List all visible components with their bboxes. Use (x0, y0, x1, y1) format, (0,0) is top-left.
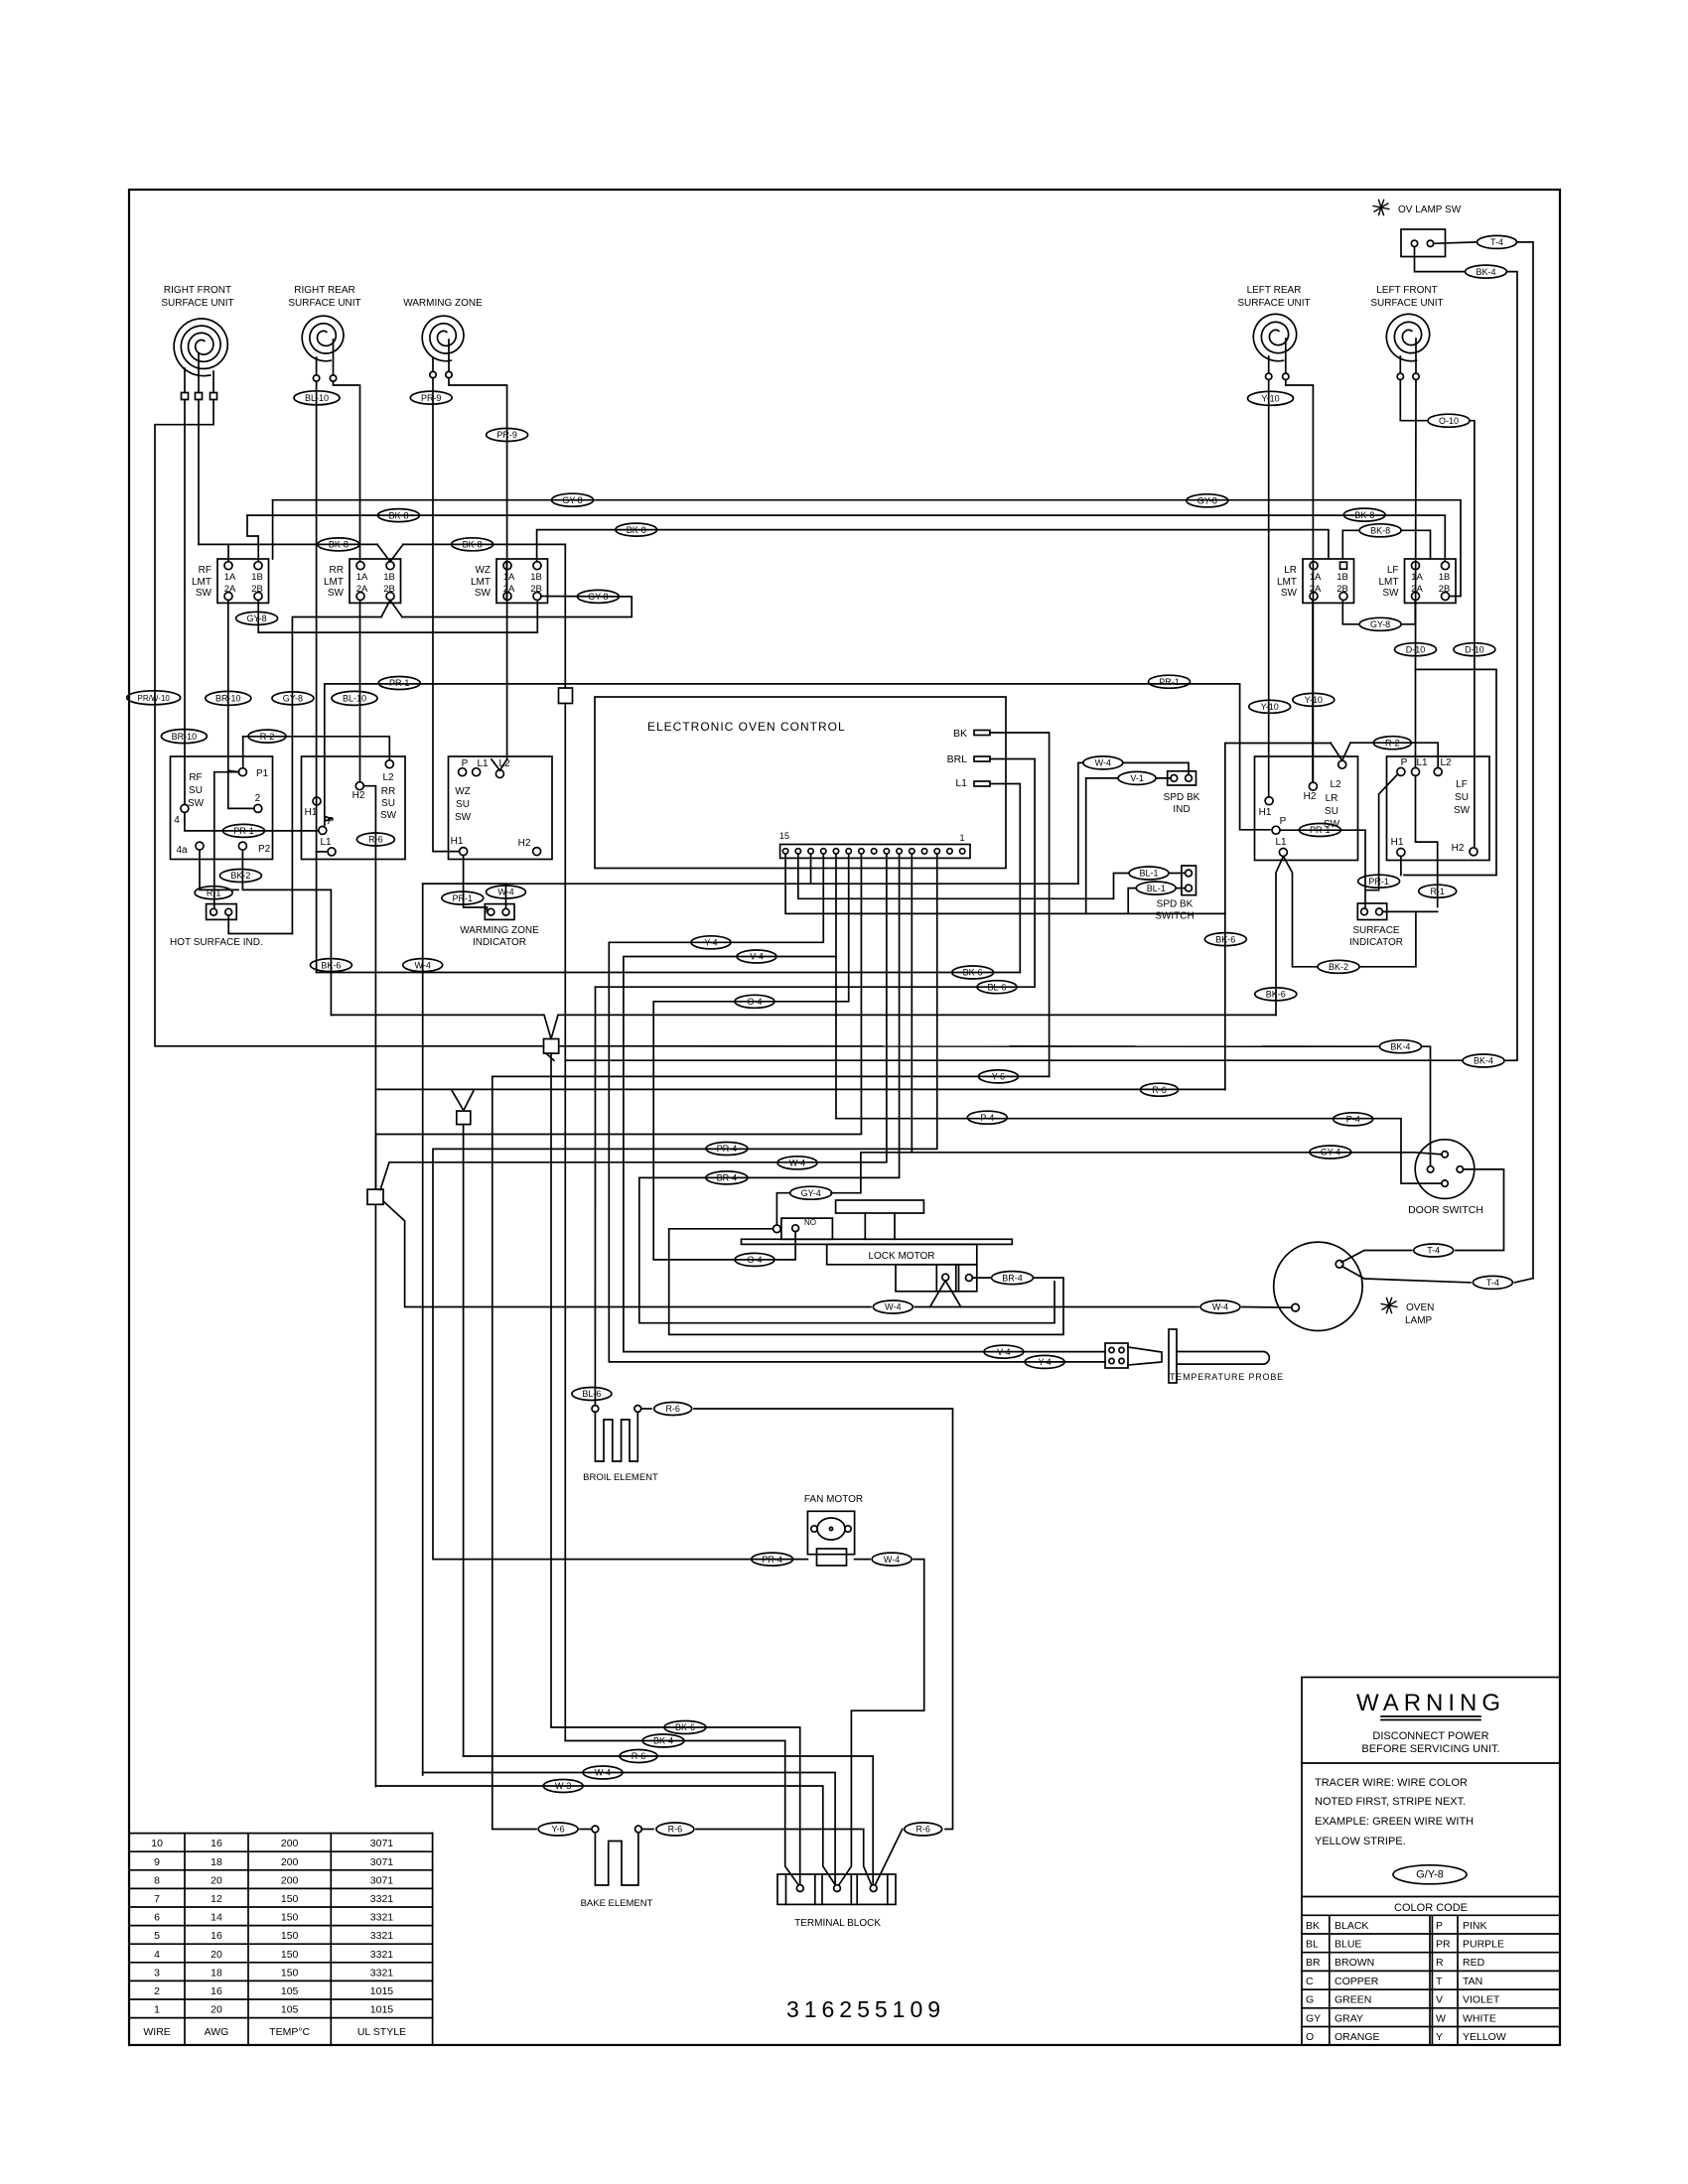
svg-text:LR: LR (1326, 793, 1338, 804)
terminal LF H2 (1452, 843, 1477, 856)
svg-text:LMT: LMT (192, 577, 211, 588)
svg-text:LMT: LMT (471, 577, 491, 588)
wire BL-1b (1128, 888, 1185, 914)
temperature probe bar (1169, 1329, 1177, 1383)
wire LR 2A down (1312, 601, 1314, 783)
wire 2 to 2A line (228, 770, 254, 808)
wire P flag RR (325, 684, 332, 825)
oval R-1 hsi (195, 887, 232, 899)
wire funnel WZ L2 (492, 759, 507, 770)
wire 1068 to ovlamp riser (1504, 1059, 1517, 1061)
terminal LR P (1272, 816, 1287, 834)
svg-text:316255109: 316255109 (786, 1996, 945, 2022)
oval R-6 bake (656, 1823, 694, 1836)
labels RR SU SW (380, 772, 397, 821)
broil element (592, 1406, 641, 1461)
svg-text:14: 14 (211, 1912, 222, 1924)
svg-text:Y-4: Y-4 (1039, 1357, 1052, 1367)
svg-text:SW: SW (1454, 805, 1471, 816)
wire RR coil left down BL-10 (316, 381, 318, 852)
svg-text:200: 200 (281, 1856, 299, 1868)
oval BL-1 a (1129, 867, 1169, 880)
svg-text:BR-4: BR-4 (1002, 1273, 1023, 1283)
lock switch pins (774, 1225, 799, 1233)
svg-text:BK: BK (1306, 1920, 1320, 1932)
oval W-4 lock1 (873, 1300, 913, 1313)
svg-text:SU: SU (456, 799, 470, 810)
oven lamp circle (1274, 1242, 1362, 1330)
svg-text:BR-10: BR-10 (172, 732, 198, 742)
wire T-4b to right riser (1514, 1279, 1533, 1283)
wire pin10 O-4 (653, 854, 849, 1260)
svg-text:PURPLE: PURPLE (1463, 1939, 1504, 1951)
wire RR2B left branch down (292, 617, 381, 934)
svg-text:H2: H2 (1452, 843, 1465, 854)
svg-text:BK-8: BK-8 (388, 510, 408, 520)
limit switch RR LMT SW (324, 559, 401, 603)
svg-text:Y-10: Y-10 (1261, 702, 1279, 712)
svg-text:INDICATOR: INDICATOR (1349, 937, 1403, 948)
svg-text:LMT: LMT (1277, 577, 1297, 588)
svg-text:15: 15 (779, 831, 789, 841)
switch RR SU SW box (302, 756, 406, 860)
oval BK-8 on LR1B (1359, 524, 1401, 537)
wire WZ 2B to GY-8 right (402, 597, 632, 617)
svg-text:Y-4: Y-4 (704, 938, 717, 948)
door switch pins (1427, 1152, 1463, 1187)
oval D-10 b (1454, 643, 1495, 656)
oval P-4 a (967, 1111, 1007, 1124)
lock motor lower box (896, 1265, 977, 1292)
terminal P1 (238, 768, 268, 779)
svg-text:PR-1: PR-1 (233, 826, 254, 836)
wire LF L1 down R-1 (1416, 775, 1438, 906)
svg-text:LOCK MOTOR: LOCK MOTOR (868, 1251, 934, 1262)
svg-text:G: G (1306, 1994, 1314, 2006)
svg-text:BK-8: BK-8 (1370, 526, 1390, 536)
wire BK stub (990, 733, 1050, 1076)
svg-text:BK-6: BK-6 (963, 968, 983, 978)
wire WZ coil left down (433, 378, 460, 852)
svg-text:BK-8: BK-8 (463, 540, 483, 550)
wire lock NC left (669, 1229, 1063, 1335)
svg-text:O-4: O-4 (747, 997, 762, 1007)
svg-text:L1: L1 (955, 777, 967, 789)
svg-text:R-2: R-2 (260, 732, 275, 742)
asterisk OV LAMP SW (1373, 200, 1389, 214)
wire bus BK-6 L1 (317, 972, 1021, 974)
svg-text:SWITCH: SWITCH (1155, 911, 1194, 922)
svg-text:L2: L2 (1440, 757, 1452, 768)
oval BK-4 ovlamp (1463, 1054, 1504, 1067)
svg-text:LR: LR (1284, 565, 1297, 576)
svg-text:W-4: W-4 (884, 1555, 900, 1565)
svg-text:V-4: V-4 (750, 952, 764, 962)
svg-text:18: 18 (211, 1856, 222, 1868)
svg-text:5: 5 (154, 1930, 160, 1942)
oval BR-10 on RF lead (161, 730, 207, 744)
svg-text:3321: 3321 (370, 1893, 394, 1905)
indicator SPD BK IND (1168, 771, 1196, 785)
oval Y-4 a (691, 936, 731, 949)
label WARMING ZONE (403, 298, 483, 309)
svg-text:PR-4: PR-4 (762, 1555, 782, 1565)
svg-text:PR-1: PR-1 (1159, 677, 1180, 687)
svg-text:WARMING ZONE: WARMING ZONE (460, 925, 539, 936)
terminal circles RR coil (313, 375, 336, 381)
wire bus R-2 right (1350, 743, 1438, 767)
wire pin3 PR-4 (433, 854, 937, 1560)
oval BL-10 on RR (294, 391, 340, 405)
svg-text:12: 12 (211, 1893, 222, 1905)
terminal RR H2 (352, 782, 365, 801)
wire squareC W4 out (383, 1201, 871, 1307)
svg-text:SW: SW (475, 588, 492, 599)
terminal squares RF coil (182, 393, 217, 400)
svg-text:L2: L2 (498, 758, 510, 769)
terminal RR L1 (320, 837, 336, 856)
wire OV LAMP SW to T-4 (1434, 242, 1476, 243)
labels WZ P L1 L2 (462, 758, 510, 769)
wire BL-6 down to broil (594, 987, 596, 1405)
oval BK-8 long1 (378, 509, 420, 522)
svg-text:O-10: O-10 (1439, 416, 1459, 426)
label LEFT REAR SURFACE UNIT (1237, 285, 1310, 309)
svg-text:1B: 1B (383, 572, 395, 583)
oval PR-1 rfsu (223, 824, 265, 837)
wire door right to T-4 (1456, 1169, 1504, 1251)
svg-text:BR: BR (1306, 1957, 1321, 1969)
svg-text:VIOLET: VIOLET (1463, 1994, 1500, 2006)
limit switch LF LMT SW (1379, 559, 1457, 603)
svg-text:P: P (1401, 757, 1408, 768)
wire bus W-3 bottom (375, 1786, 835, 1885)
wire bus GY-8 top (273, 500, 1461, 597)
wire bus BK-8 b (403, 543, 565, 545)
svg-text:T-4: T-4 (1486, 1278, 1499, 1288)
wire bus 1068 BK-4 (565, 1059, 1463, 1061)
wire bus PR-1 (325, 684, 1270, 830)
svg-text:BL-10: BL-10 (305, 393, 329, 403)
wire pin7 W-4 sq3 (380, 854, 887, 1190)
svg-text:ELECTRONIC OVEN CONTROL: ELECTRONIC OVEN CONTROL (647, 720, 846, 734)
label OV LAMP SW (1398, 205, 1462, 215)
wire LR 1B riser (1342, 530, 1359, 559)
wire funnel LR L2 (1331, 743, 1350, 760)
wire lock terminal W4 legs (930, 1281, 961, 1307)
svg-text:BL-1: BL-1 (1139, 869, 1158, 879)
svg-text:W-4: W-4 (885, 1302, 901, 1312)
oval W-4 lamp (1200, 1300, 1240, 1313)
svg-text:3071: 3071 (370, 1874, 394, 1886)
svg-text:L1: L1 (1416, 757, 1428, 768)
wire funnel squareB (451, 1089, 474, 1109)
wire RR H2 to R-6 line (363, 786, 375, 1189)
oval T-4 lamp (1473, 1276, 1512, 1289)
svg-text:GY-4: GY-4 (801, 1188, 821, 1198)
wire RF2A to P1 (228, 601, 239, 772)
oval PR-1 lfp (1358, 875, 1400, 887)
label BROIL ELEMENT (583, 1472, 658, 1483)
oval BK-4 b1 (642, 1734, 684, 1747)
label ELECTRONIC OVEN CONTROL (647, 720, 846, 734)
lock motor terminals (942, 1274, 973, 1281)
svg-text:HOT SURFACE IND.: HOT SURFACE IND. (170, 937, 263, 948)
wire WZ 1B up to BK-8 bus (537, 530, 1329, 562)
svg-text:PR-1: PR-1 (453, 893, 474, 903)
svg-text:L1: L1 (477, 758, 489, 769)
oval G/Y-8 (1393, 1865, 1467, 1884)
oval BK-4 top (1466, 265, 1507, 278)
wire bake left Y-6 (580, 1829, 592, 1831)
oval T-4 door (1414, 1244, 1454, 1257)
junction square B (457, 1111, 471, 1125)
svg-text:GY-8: GY-8 (283, 694, 303, 704)
svg-text:PR/W-10: PR/W-10 (138, 694, 171, 703)
oval GY-8 top2 (1187, 494, 1228, 507)
terminal P2 (238, 842, 270, 855)
label SURFACE INDICATOR (1349, 925, 1403, 948)
svg-text:2A: 2A (1411, 584, 1423, 595)
svg-text:20: 20 (211, 2004, 222, 2016)
svg-text:BK-4: BK-4 (1474, 1056, 1493, 1066)
wire LF H1 stub (1400, 857, 1402, 876)
svg-text:16: 16 (211, 1838, 222, 1849)
svg-text:4: 4 (174, 815, 180, 826)
wire GY-4 lock (776, 1153, 861, 1225)
oval BL-1 b (1136, 882, 1176, 894)
svg-text:GRAY: GRAY (1335, 2012, 1363, 2024)
svg-text:BRL: BRL (947, 753, 968, 765)
terminal WZ H2 (518, 838, 541, 856)
svg-text:2A: 2A (356, 584, 368, 595)
svg-text:TEMPERATURE PROBE: TEMPERATURE PROBE (1170, 1372, 1284, 1382)
wire R-2 to P1 (242, 737, 244, 768)
svg-text:COPPER: COPPER (1335, 1976, 1379, 1987)
label LEFT FRONT SURFACE UNIT (1370, 285, 1443, 309)
oval BL-6 broil (572, 1388, 612, 1401)
wire bus R-6 mid (375, 1088, 1224, 1090)
wire bake right R-6 (641, 1830, 871, 1885)
svg-text:1: 1 (154, 2004, 160, 2016)
wire LR coil right jog (1286, 380, 1314, 783)
svg-text:1A: 1A (1310, 572, 1322, 583)
oval R-2 right (1373, 737, 1411, 750)
svg-text:AWG: AWG (205, 2026, 229, 2038)
svg-text:TEMP°C: TEMP°C (269, 2026, 310, 2038)
oval V-4 a (737, 950, 776, 963)
svg-text:GREEN: GREEN (1335, 1994, 1371, 2006)
wire GY-4 bus right (912, 1153, 1442, 1155)
svg-text:1A: 1A (1411, 572, 1423, 583)
svg-text:SW: SW (455, 812, 472, 823)
wire PR-1 wzi (486, 907, 488, 912)
svg-text:BEFORE SERVICING UNIT.: BEFORE SERVICING UNIT. (1361, 1743, 1499, 1755)
pin L1 (955, 777, 990, 789)
terminal RR L2 (385, 760, 393, 768)
oval GY-4 door (1310, 1146, 1351, 1159)
pin BRL (947, 753, 990, 765)
svg-text:2: 2 (154, 1985, 160, 1997)
svg-text:LF: LF (1456, 779, 1468, 790)
wire RR 2A down BL-10 (359, 601, 361, 782)
terminal circles LR coil (1266, 373, 1290, 379)
svg-text:7: 7 (154, 1893, 160, 1905)
oval BK-6 lr (1255, 988, 1297, 1001)
border frame (129, 190, 1560, 2045)
svg-text:WZ: WZ (455, 786, 471, 797)
svg-text:GY-8: GY-8 (588, 592, 608, 602)
svg-text:P: P (328, 816, 335, 827)
terminal 4 (174, 804, 189, 826)
oval BK-8 wz1b (616, 523, 657, 536)
color code entries (1306, 1920, 1506, 2043)
oval BK-4 door (1379, 1040, 1421, 1053)
svg-text:D-10: D-10 (1406, 644, 1426, 654)
svg-text:PR-9: PR-9 (421, 393, 442, 403)
switch SPD BK SWITCH (1182, 866, 1196, 895)
oval Y-4 probe (1025, 1355, 1064, 1368)
oval PR-4 bus (706, 1143, 748, 1156)
svg-text:150: 150 (281, 1930, 299, 1942)
svg-text:EXAMPLE: GREEN WIRE WITH: EXAMPLE: GREEN WIRE WITH (1315, 1816, 1474, 1828)
label BEFORE SERVICING UNIT (1361, 1743, 1499, 1755)
wire W4 to lamp pin (1242, 1306, 1292, 1309)
svg-text:P-4: P-4 (1346, 1115, 1360, 1125)
wire BK-8 LR to LF (1401, 530, 1431, 559)
svg-text:W-4: W-4 (1212, 1302, 1228, 1312)
svg-text:1015: 1015 (370, 1985, 394, 1997)
wire bus BK-8 long (247, 515, 1445, 562)
wire squareA down (550, 1053, 553, 1727)
label TEMPERATURE PROBE (1170, 1372, 1284, 1382)
svg-text:2A: 2A (1310, 584, 1322, 595)
wire squareA diag to 1068 (546, 1053, 554, 1060)
svg-text:TRACER WIRE: WIRE COLOR: TRACER WIRE: WIRE COLOR (1315, 1777, 1468, 1789)
wire OV LAMP SW to BK-4 (1415, 247, 1466, 272)
svg-text:4a: 4a (176, 845, 188, 856)
svg-text:DOOR SWITCH: DOOR SWITCH (1408, 1204, 1483, 1216)
svg-text:1: 1 (959, 833, 964, 843)
wire LR L1 funnel right BK-2 (1283, 857, 1317, 967)
oval R-6 bus (1141, 1083, 1179, 1096)
oval PR/W-10 (127, 691, 181, 705)
temperature probe block (1105, 1343, 1128, 1368)
wire bus P-4 (836, 1119, 1442, 1183)
labels LR SU SW (1324, 793, 1340, 830)
svg-text:SW: SW (1382, 588, 1399, 599)
wire pin15 bus (785, 854, 1225, 1090)
oval PR-1 busR (1149, 675, 1191, 688)
oval R-6 rrsu (356, 833, 394, 846)
indicator HOT SURFACE IND (207, 904, 237, 920)
svg-text:R: R (1436, 1957, 1444, 1969)
wire W4 under lock (914, 1306, 1198, 1308)
svg-text:BROIL ELEMENT: BROIL ELEMENT (583, 1472, 658, 1483)
svg-text:BK-8: BK-8 (1354, 510, 1374, 520)
svg-text:1B: 1B (1439, 572, 1451, 583)
oval BK-6 spd (1204, 933, 1246, 946)
fan motor (807, 1511, 854, 1566)
svg-text:200: 200 (281, 1838, 299, 1849)
wire WZ 1A down (505, 562, 507, 601)
label RIGHT FRONT SURFACE UNIT (161, 285, 233, 309)
svg-text:2B: 2B (1336, 584, 1348, 595)
wire P1 to R-1 (214, 772, 239, 909)
svg-text:C: C (1306, 1976, 1314, 1987)
svg-text:BLUE: BLUE (1335, 1939, 1361, 1951)
wire bus BL-6 (596, 986, 1036, 988)
svg-text:2A: 2A (503, 584, 515, 595)
svg-text:3071: 3071 (370, 1838, 394, 1849)
svg-text:BK-2: BK-2 (1329, 962, 1348, 972)
svg-text:BK-6: BK-6 (321, 960, 341, 970)
svg-text:LAMP: LAMP (1405, 1315, 1433, 1326)
oval PR-9 a (410, 391, 452, 404)
svg-text:BR-4: BR-4 (717, 1173, 738, 1183)
label DOOR SWITCH (1408, 1204, 1483, 1216)
wire 4 to PR-1a (185, 812, 319, 831)
label NO (804, 1218, 816, 1227)
wire broil R-6 (641, 1409, 953, 1830)
limit switch RF LMT SW (192, 559, 269, 603)
svg-text:PINK: PINK (1463, 1920, 1487, 1932)
label FAN MOTOR (804, 1494, 863, 1505)
wire RF mid lead to 1A (199, 544, 377, 561)
svg-text:SURFACE: SURFACE (1352, 925, 1400, 936)
svg-text:GY: GY (1306, 2012, 1321, 2024)
svg-text:4: 4 (154, 1949, 160, 1961)
svg-text:V: V (1436, 1994, 1443, 2006)
wire bus BK-6 bottom (552, 1727, 800, 1884)
wire pin14 bus (798, 854, 1114, 898)
wire funnel squareA (331, 1015, 1276, 1038)
wire RR coil right to 1A (334, 381, 360, 562)
oval W-3 b1 (543, 1780, 583, 1793)
svg-text:16: 16 (211, 1985, 222, 1997)
svg-text:SURFACE UNIT: SURFACE UNIT (161, 298, 233, 309)
svg-text:SW: SW (196, 588, 212, 599)
svg-text:2B: 2B (530, 584, 542, 595)
wire R-2 riser to LR L2 (1225, 744, 1331, 914)
svg-text:200: 200 (281, 1874, 299, 1886)
wire squareB down (463, 1125, 465, 1756)
labels WZ SU SW (455, 786, 472, 823)
svg-text:NOTED FIRST, STRIPE NEXT.: NOTED FIRST, STRIPE NEXT. (1315, 1796, 1466, 1808)
wire BK-2 to R1 node (1360, 911, 1416, 966)
svg-text:R-6: R-6 (915, 1825, 930, 1835)
svg-text:GY-8: GY-8 (1370, 619, 1390, 629)
svg-text:R-2: R-2 (1385, 738, 1400, 748)
oval BK-6 bus (952, 966, 994, 979)
labels LF SU SW (1454, 779, 1471, 816)
wire L1 down join (316, 852, 318, 973)
svg-text:R-1: R-1 (1430, 887, 1445, 896)
svg-text:BROWN: BROWN (1335, 1957, 1374, 1969)
wire pin13 bus W-4 (423, 854, 1078, 884)
labels RF SU SW (188, 772, 205, 809)
svg-text:LEFT REAR: LEFT REAR (1247, 285, 1302, 296)
svg-text:BAKE ELEMENT: BAKE ELEMENT (581, 1898, 653, 1909)
lock motor plate (742, 1239, 1013, 1244)
junction square D top (559, 544, 573, 1060)
svg-text:20: 20 (211, 1949, 222, 1961)
svg-text:2B: 2B (383, 584, 395, 595)
oval D-10 a (1395, 643, 1437, 656)
label 1 (959, 833, 964, 843)
wire WZ coil right jog (449, 378, 507, 759)
svg-text:P1: P1 (256, 768, 269, 779)
